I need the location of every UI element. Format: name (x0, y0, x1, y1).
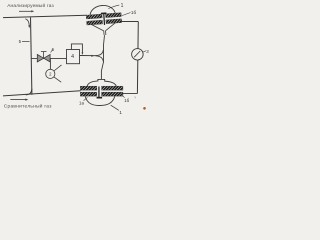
node: label 5 (19, 39, 30, 44)
electrode bars top cell (86, 13, 121, 25)
label 1b leader (top) (122, 10, 136, 16)
wire: gauge to bottom cell (123, 93, 138, 95)
orange speck (143, 107, 146, 110)
box 4 (67, 44, 84, 64)
svg-text:1: 1 (121, 3, 124, 9)
label 1 leader (top) (108, 3, 123, 9)
sensing element T (top cell) (101, 12, 107, 25)
small stray tick (134, 96, 136, 98)
wire: box output (80, 55, 98, 57)
electrode bars bottom cell (80, 86, 122, 96)
svg-text:Анализируемый газ: Анализируемый газ (7, 2, 54, 9)
flow arrow turning down at top T (25, 19, 30, 29)
label 1a leader (79, 98, 87, 106)
wire: pump drop (49, 58, 51, 69)
wire: left vertical line 5 (31, 17, 32, 94)
corner arc at bottom T (26, 89, 32, 95)
label 1b (bottom) (123, 96, 130, 103)
dome of bottom cell (87, 79, 116, 86)
wire: middle vertical to both cells (101, 35, 104, 79)
sensing element T (bottom cell) (97, 87, 103, 99)
pump 2 (46, 65, 62, 82)
svg-text:1: 1 (119, 110, 122, 116)
valve 6 (37, 52, 50, 62)
svg-text:1а: 1а (79, 101, 84, 106)
wire: top cell to gauge (121, 21, 138, 23)
flow arrow above bottom title (10, 99, 28, 101)
label 1 leader (bottom) (111, 105, 123, 116)
funnel of top cell (91, 23, 116, 36)
wire: top pipe (3, 15, 87, 17)
bottom bowl of bottom cell (85, 96, 115, 105)
svg-text:Сравнительный газ: Сравнительный газ (4, 102, 52, 109)
gauge 3 (132, 49, 150, 61)
flow arrowhead on output (91, 55, 94, 57)
svg-text:4: 4 (71, 54, 74, 60)
flow arrow under title (19, 10, 34, 12)
wire: valve line (31, 57, 66, 59)
junction split arcs (96, 50, 104, 56)
wire: bottom pipe (3, 91, 81, 96)
label 6 leader (51, 47, 55, 52)
svg-text:1б: 1б (131, 10, 137, 15)
svg-text:1б: 1б (124, 98, 129, 103)
dome of top cell (90, 5, 116, 15)
wire: gauge vertical (136, 22, 139, 94)
